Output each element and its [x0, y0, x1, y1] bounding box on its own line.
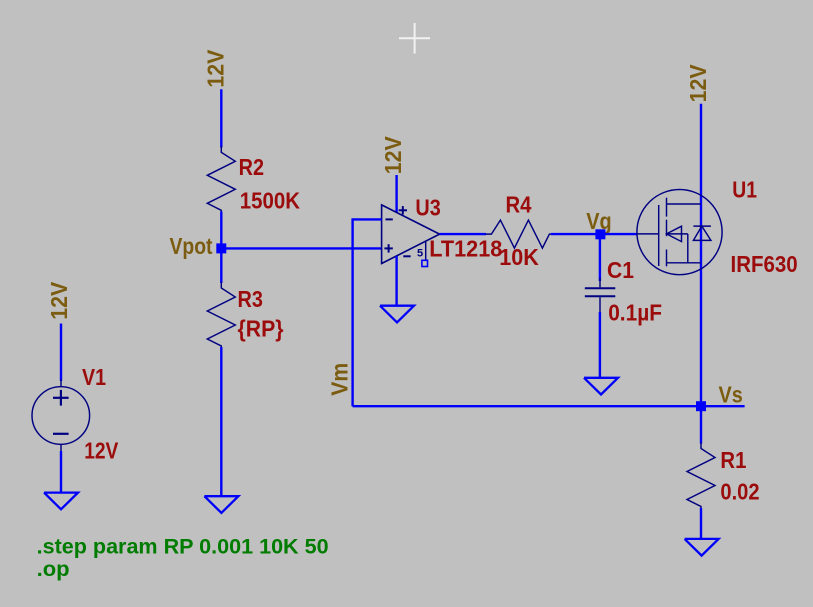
svg-text:LT1218: LT1218	[429, 236, 502, 262]
resistor R2	[207, 146, 235, 212]
wire 12V to R2	[220, 89, 222, 147]
wire R4 to Vg	[551, 233, 600, 235]
voltage source V1	[32, 380, 90, 453]
wire V1 to ground	[60, 451, 62, 493]
node Vs junction	[696, 401, 706, 411]
wire Vg to C1	[599, 234, 601, 281]
svg-text:12V: 12V	[46, 281, 72, 319]
wire 12V to V1	[60, 324, 62, 382]
svg-text:1500K: 1500K	[240, 187, 300, 213]
svg-text:R1: R1	[720, 447, 746, 473]
svg-text:R2: R2	[239, 154, 264, 180]
svg-text:U3: U3	[415, 195, 440, 221]
ground (U3)	[380, 306, 414, 323]
svg-text:12V: 12V	[203, 49, 229, 87]
svg-text:Vm: Vm	[327, 363, 353, 396]
wire R2 to Vpot	[220, 212, 222, 250]
svg-text:5: 5	[417, 247, 423, 259]
svg-text:10K: 10K	[499, 244, 539, 270]
wire Vs to R1	[700, 406, 702, 443]
svg-text:Vpot: Vpot	[170, 233, 213, 259]
svg-text:0.02: 0.02	[720, 479, 759, 505]
wire R1 to ground	[700, 508, 702, 539]
svg-text:C1: C1	[607, 257, 634, 283]
resistor R4	[485, 220, 551, 248]
cursor crosshair	[399, 23, 430, 54]
svg-text:12V: 12V	[380, 136, 406, 174]
svg-text:0.1µF: 0.1µF	[608, 299, 662, 325]
wire Vpot to R3	[220, 248, 222, 283]
svg-text:Vs: Vs	[719, 381, 743, 407]
node Vg junction	[595, 229, 605, 239]
svg-text:.op: .op	[37, 557, 70, 581]
svg-text:.step param RP 0.001 10K 50: .step param RP 0.001 10K 50	[37, 535, 329, 559]
ground (R3)	[204, 496, 238, 513]
op-amp U3	[382, 205, 440, 264]
wire Vg to U1 gate	[600, 233, 638, 235]
svg-text:V1: V1	[82, 364, 106, 390]
svg-text:12V: 12V	[685, 64, 711, 102]
resistor R1	[687, 443, 715, 509]
pin 5 (shutdown)	[425, 241, 427, 260]
wire R3 to ground	[220, 347, 222, 496]
svg-text:U1: U1	[732, 177, 757, 203]
ground (R1)	[685, 539, 719, 556]
ground (C1)	[584, 378, 618, 395]
svg-text:R3: R3	[238, 286, 263, 312]
ground (V1)	[44, 493, 78, 510]
resistor R3	[207, 282, 235, 348]
wire C1 to ground	[599, 312, 601, 378]
transistor U1	[637, 190, 722, 275]
capacitor C1	[585, 278, 616, 313]
svg-text:12V: 12V	[84, 437, 118, 463]
wire Vm feedback horizontal	[353, 405, 745, 407]
wire Vpot to U3 noninverting input	[221, 247, 381, 249]
node Vpot junction	[216, 243, 226, 253]
wire 12V to U3 V+	[395, 175, 397, 213]
wire U3 V- to ground	[395, 256, 397, 306]
wire U3 output to R4	[440, 233, 486, 235]
svg-text:IRF630: IRF630	[731, 251, 798, 277]
wire U3 inverting input feedback (left and down)	[353, 219, 382, 406]
svg-text:{RP}: {RP}	[238, 316, 284, 342]
svg-text:R4: R4	[506, 192, 532, 218]
wire 12V through U1 to Vs	[700, 104, 702, 406]
